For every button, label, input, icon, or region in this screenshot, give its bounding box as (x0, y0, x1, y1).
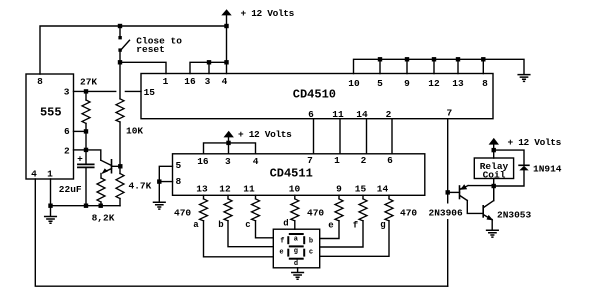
svg-text:8: 8 (482, 78, 488, 89)
capacitor C1 22uF plates (78, 164, 94, 167)
node CD4510 pin7 / Q2 base (446, 190, 450, 194)
svg-text:e: e (328, 221, 333, 231)
wire CD4510 pins 16,3,4 bus (190, 62, 227, 73)
wire Q2 base (448, 191, 460, 193)
node bus pin8 (481, 57, 485, 61)
label 2N3053 (497, 210, 532, 221)
svg-text:11: 11 (332, 109, 344, 120)
display letter g (294, 248, 298, 256)
svg-text:16: 16 (197, 156, 209, 167)
IC U1 555 box (26, 74, 74, 179)
label segment a (193, 220, 199, 230)
node junction top rail / +12V (224, 24, 228, 28)
display segment bar d (289, 258, 304, 260)
display segment bar top-left (287, 236, 289, 244)
node rail/cap (84, 204, 88, 208)
pin 4 label CD4511 (253, 156, 259, 167)
display segment bar top-right (303, 236, 305, 244)
node pin4 bus (224, 60, 228, 64)
display segment bar g (289, 245, 304, 247)
svg-text:13: 13 (452, 78, 464, 89)
pin 2 label CD4510 bottom (386, 109, 392, 120)
pin 2 label (64, 145, 70, 156)
pin 2 label CD4511 (361, 155, 367, 166)
label + 12 Volts top (241, 8, 295, 19)
node relay / diode / collector (492, 184, 496, 188)
pin 9 label CD4510 (404, 78, 410, 89)
pin 3 label (64, 87, 70, 98)
pin 7 label CD4511 (307, 155, 313, 166)
power +12V symbol top (221, 9, 231, 15)
svg-text:+ 12 Volts: + 12 Volts (508, 137, 562, 148)
wire CD4510 pin14 to CD4511 pin2 (366, 119, 368, 154)
pin 9 label CD4511 bottom (336, 184, 342, 195)
wire bottom left rail (51, 205, 121, 207)
svg-text:e: e (279, 248, 283, 256)
svg-text:4: 4 (31, 169, 37, 180)
pin 3 label CD4510 (205, 76, 211, 87)
pin 12 label CD4511 bottom (219, 184, 231, 195)
svg-text:7: 7 (446, 108, 452, 119)
svg-text:11: 11 (243, 184, 255, 195)
pin 14 label CD4510 bottom (356, 109, 368, 120)
node base junction (118, 164, 122, 168)
svg-text:b: b (309, 237, 313, 245)
svg-text:9: 9 (404, 78, 410, 89)
svg-text:CD4511: CD4511 (270, 167, 313, 181)
svg-text:+ 12 Volts: + 12 Volts (241, 8, 295, 19)
ground under 555 pin1 (45, 217, 57, 224)
wire 4.7K to bottom rail (119, 199, 121, 206)
node bus pin12 (432, 57, 436, 61)
wire +12V drop to CD4510 pin4 bus (226, 15, 228, 62)
pin 14 label CD4511 bottom (377, 184, 389, 195)
wire CD4510 pin7 down (447, 119, 449, 287)
node rail/pin1 (48, 204, 52, 208)
display letter e (279, 248, 283, 256)
power +12V symbol right (489, 138, 499, 145)
IC U2 CD4510 box (141, 74, 493, 119)
pin 6 label (64, 126, 70, 137)
wire pin2 to transistor collector (86, 150, 101, 160)
node bus pin13 (456, 57, 460, 61)
svg-text:8,2K: 8,2K (92, 213, 115, 224)
svg-text:f: f (280, 237, 284, 245)
pin 4 label (31, 169, 37, 180)
label 470 mid (307, 208, 324, 219)
wire CD4511 pins 5,8 to ground (159, 166, 172, 201)
node pin8 gnd (157, 179, 161, 183)
wire 555 pin3 to CD4510 pin15 with crossover gap (74, 90, 142, 92)
svg-text:2: 2 (361, 155, 367, 166)
svg-text:2: 2 (386, 109, 392, 120)
svg-text:+: + (77, 153, 83, 164)
label 27K (80, 77, 97, 88)
diode D1 1N914 (519, 164, 529, 166)
wire 10K bottom to base node (119, 122, 121, 166)
wire 27K bottom to cap (85, 123, 87, 164)
wire cap bottom to rail (85, 168, 87, 206)
label + 12 Volts right (508, 137, 562, 148)
ground under CD4511 (154, 202, 166, 209)
svg-text:9: 9 (336, 184, 342, 195)
svg-text:12: 12 (428, 78, 440, 89)
svg-text:3: 3 (205, 76, 211, 87)
wire CD4510 pin6 to CD4511 pin7 (313, 119, 315, 154)
label 2N3906 (427, 204, 466, 220)
relay coil box (474, 158, 513, 179)
display letter d (294, 260, 298, 268)
node pin6 junction (84, 129, 88, 133)
node junction top rail / switch (118, 24, 122, 28)
transistor Q3 2N3053 (482, 206, 484, 217)
pin 16 label CD4511 (197, 156, 209, 167)
pin 13 label CD4511 bottom (196, 184, 208, 195)
wire relay bottom to collector node (493, 179, 495, 201)
svg-text:d: d (283, 219, 288, 229)
label 1N914 (533, 164, 562, 175)
pin 5 label CD4511 (175, 160, 181, 171)
node bus pin5 (378, 57, 382, 61)
wire +12V to relay and diode (494, 144, 524, 165)
resistor 4.7K (119, 166, 121, 173)
label 8,2K (92, 213, 115, 224)
label cap plus (77, 153, 83, 164)
node CD4511 bus (226, 141, 230, 145)
svg-text:15: 15 (355, 184, 367, 195)
svg-text:f: f (353, 221, 358, 231)
svg-text:2N3906: 2N3906 (429, 208, 464, 219)
svg-text:6: 6 (64, 126, 70, 137)
svg-text:555: 555 (40, 105, 62, 119)
label 22uF (59, 184, 82, 195)
svg-text:14: 14 (377, 184, 389, 195)
resistor R-e 470 (320, 195, 343, 238)
label 470 left (174, 208, 191, 219)
pin 1 label CD4510 (163, 76, 169, 87)
svg-text:4: 4 (222, 76, 228, 87)
pin 8 label (37, 76, 43, 87)
label Close to reset (136, 36, 182, 56)
label CD4511 (270, 167, 313, 181)
pin 10 label CD4510 (348, 78, 360, 89)
svg-text:12: 12 (219, 184, 231, 195)
display DS1 box (273, 229, 319, 268)
wire switch to 10K and CD4510 pin1 (120, 50, 166, 99)
svg-text:6: 6 (387, 155, 393, 166)
node pin3 bus (207, 60, 211, 64)
svg-text:c: c (309, 248, 313, 256)
svg-text:7: 7 (307, 155, 313, 166)
svg-text:a: a (193, 220, 199, 230)
label segment g (380, 220, 385, 230)
svg-text:d: d (294, 260, 298, 268)
label Relay (480, 161, 509, 172)
pin 11 label CD4510 bottom (332, 109, 344, 120)
svg-text:15: 15 (144, 87, 156, 98)
pin 4 label CD4510 (222, 76, 228, 87)
svg-text:+ 12 Volts: + 12 Volts (238, 129, 292, 140)
ground under display (292, 273, 304, 280)
display letter f (280, 237, 284, 245)
wire 8.2K to rail (100, 202, 102, 206)
label 4.7K (129, 180, 152, 191)
wire +12V to CD4511 bus (204, 137, 256, 154)
label 555 (40, 105, 62, 119)
node pin3/27K junction (84, 89, 88, 93)
pin 11 label CD4511 bottom (243, 184, 255, 195)
pin 1 label (47, 169, 53, 180)
svg-text:4.7K: 4.7K (129, 180, 152, 191)
display segment bar bottom-left (287, 249, 289, 257)
pin 6 label CD4510 bottom (308, 109, 314, 120)
label segment c (245, 220, 250, 230)
display letter c (309, 248, 313, 256)
svg-text:470: 470 (400, 208, 417, 219)
node switch bottom junction (118, 60, 122, 64)
label 470 right (400, 208, 417, 219)
ground under Q3 (487, 230, 499, 237)
pin 8 label CD4510 (482, 78, 488, 89)
svg-text:10K: 10K (126, 126, 143, 137)
svg-text:c: c (245, 220, 250, 230)
wire CD4510 pin11 to CD4511 pin1 (339, 119, 341, 154)
resistor 27K (85, 91, 87, 100)
svg-text:13: 13 (196, 184, 208, 195)
display segment bar bottom-right (303, 249, 305, 257)
wire 555 pin4 to bottom rail (35, 179, 447, 286)
svg-text:1: 1 (334, 155, 340, 166)
svg-text:8: 8 (175, 176, 181, 187)
svg-text:22uF: 22uF (59, 184, 82, 195)
label Coil (483, 170, 506, 181)
transistor Q1 (111, 160, 113, 173)
wire top rail from 555 pin8 to +12V (40, 26, 227, 74)
svg-text:5: 5 (175, 160, 181, 171)
svg-text:2: 2 (64, 145, 70, 156)
node pin2 junction (84, 148, 88, 152)
svg-text:470: 470 (174, 208, 191, 219)
wire emitter to 8.2K (100, 174, 102, 179)
svg-text:3: 3 (225, 156, 231, 167)
wire CD4510 pin2 to CD4511 pin6 (391, 119, 393, 154)
svg-text:10: 10 (348, 78, 360, 89)
node bus pin9 (405, 57, 409, 61)
wire display common to ground (297, 268, 299, 273)
IC U3 CD4511 box (173, 154, 425, 196)
svg-text:1: 1 (47, 169, 53, 180)
svg-text:1: 1 (163, 76, 169, 87)
resistor R-f 470 (320, 195, 367, 247)
svg-text:8: 8 (37, 76, 43, 87)
pin 1 label CD4511 (334, 155, 340, 166)
resistor R-g 470 (320, 195, 393, 256)
display letter b (309, 237, 313, 245)
pin 6 label CD4511 (387, 155, 393, 166)
svg-text:10: 10 (289, 184, 301, 195)
wire 555 pin2 (74, 149, 87, 151)
resistor R-b 470 (224, 195, 273, 246)
label CD4510 (293, 88, 336, 102)
resistor 10K (116, 99, 124, 122)
node rail/8.2K (99, 204, 103, 208)
svg-text:g: g (380, 220, 385, 230)
pin 13 label CD4510 (452, 78, 464, 89)
svg-text:2N3053: 2N3053 (497, 210, 532, 221)
pin 8 label CD4511 (175, 176, 181, 187)
svg-text:b: b (218, 220, 223, 230)
label segment f (353, 221, 358, 231)
pin 12 label CD4510 (428, 78, 440, 89)
ground top right (518, 75, 530, 82)
svg-text:CD4510: CD4510 (293, 88, 336, 102)
pin 15 label CD4511 bottom (355, 184, 367, 195)
pin 15 label (144, 87, 156, 98)
wire 555 pin1 down (50, 179, 52, 216)
svg-text:470: 470 (307, 208, 324, 219)
pin 10 label CD4511 bottom (289, 184, 301, 195)
resistor R-a 470 (200, 195, 274, 256)
label + 12 Volts mid (238, 129, 292, 140)
svg-text:g: g (294, 248, 298, 256)
label segment e (328, 221, 333, 231)
svg-text:reset: reset (136, 44, 165, 55)
wire 555 pin6 (74, 130, 87, 132)
pin 16 label CD4510 (184, 76, 196, 87)
label 10K (126, 126, 143, 137)
svg-text:1N914: 1N914 (533, 164, 562, 175)
power +12V symbol mid (224, 131, 234, 138)
label segment b (218, 220, 223, 230)
svg-text:16: 16 (184, 76, 196, 87)
resistor R-c 470 (252, 195, 274, 238)
resistor R-d 470 (291, 195, 299, 229)
wire CD4510 top ground bus (354, 59, 525, 74)
pin 5 label CD4510 (377, 78, 383, 89)
svg-text:4: 4 (253, 156, 259, 167)
switch S1 close to reset (120, 26, 130, 50)
display letter a (294, 235, 299, 243)
svg-text:27K: 27K (80, 77, 97, 88)
resistor 8.2K (97, 178, 105, 202)
pin 7 label CD4510 bottom (446, 108, 452, 119)
pin 3 label CD4511 (225, 156, 231, 167)
node +12V branch (492, 148, 496, 152)
display segment bar a (289, 233, 304, 235)
svg-text:3: 3 (64, 87, 70, 98)
transistor Q2 2N3906 (459, 186, 461, 199)
svg-text:5: 5 (377, 78, 383, 89)
label segment d (283, 219, 288, 229)
